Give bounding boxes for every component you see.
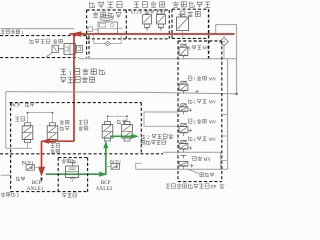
green arrow right [99, 172, 107, 177]
valve 轴2保持MV [181, 124, 186, 127]
secondary regulator valve [179, 14, 185, 16]
red main line BP (horizontal) [70, 33, 235, 35]
svg-text:MV: MV [203, 158, 211, 163]
left supply drop [5, 92, 7, 149]
green line from AXLE1 junction to AXLE2 [46, 173, 106, 175]
valve 轴2排气MV [181, 140, 186, 143]
U pipe to EP box [144, 112, 178, 126]
label 轴1排气 MV [188, 76, 192, 80]
dashed box top-left 远控预解保持 [0, 35, 89, 37]
svg-text:AXLE1: AXLE1 [27, 186, 44, 192]
gauge BCP1 [26, 165, 34, 170]
dashed box 连接阀 [58, 157, 87, 159]
label 负荷单元 [133, 1, 164, 7]
red arrow left at corner [41, 139, 49, 144]
green exhaust line with arrow [110, 135, 132, 137]
label 轴2制动缸压 note line1 [141, 134, 145, 138]
green riser to exhaust valve [105, 142, 107, 174]
svg-text:BCP1: BCP1 [21, 161, 33, 166]
right stub of regulator [118, 27, 123, 29]
pipe from BCP2 area to EP [136, 163, 142, 169]
label 进气/保持 right of valve2 [60, 120, 69, 124]
check valve diamond small [105, 41, 111, 46]
label 进气 valve1 [15, 117, 25, 122]
gauge BCP2 [111, 164, 119, 170]
label 连接MV [193, 156, 202, 160]
right gray pipe loop top [216, 25, 237, 94]
pointer to 控制阀 [189, 170, 200, 174]
dashed box 主调节器 [86, 10, 88, 58]
svg-text:BCP: BCP [11, 103, 21, 108]
wire linking BCP valve tops [28, 112, 53, 114]
EP vertical pipe right [227, 59, 229, 170]
green arrow up [103, 141, 108, 148]
check valve diamond right [220, 38, 229, 46]
stub pipes EP [222, 114, 228, 116]
label 远控预解 保持 [30, 39, 50, 43]
label 轴1制动缸压 note line1 [60, 69, 66, 75]
red return line to BCP1 [42, 140, 75, 142]
label 力进气示意 note line2 [60, 77, 94, 83]
center valve 4 [124, 122, 130, 125]
red vertical brake pipe [73, 34, 75, 141]
label 控制阀 [200, 173, 214, 177]
pilot valve 远控预解 [52, 45, 58, 52]
BCP valve 2 [50, 123, 56, 126]
svg-text:R/: R/ [187, 45, 192, 50]
left stub of regulator [88, 27, 93, 32]
label 连接阀 inner [62, 159, 76, 163]
dashed EP box [178, 40, 222, 42]
label 主调节器 top [90, 2, 123, 8]
svg-text:2: 2 [17, 192, 19, 197]
regulator bypass loop with check valve [94, 33, 121, 43]
top-left remote pipe (远程接口1) [1, 28, 75, 30]
svg-text:V1.CP: V1.CP [130, 10, 142, 15]
label 排气/保持 center-left [79, 120, 88, 124]
label 主调节器 inner [93, 12, 122, 18]
svg-text:MV: MV [209, 76, 217, 81]
svg-text:1: 1 [193, 99, 195, 104]
valve 轴1保持MV [181, 104, 186, 107]
red drop to BCP AXLE1 [41, 141, 43, 168]
valve R/保留MV [181, 44, 186, 47]
dashed box BCP调节 / center [10, 102, 142, 104]
svg-text:EP: EP [211, 185, 217, 190]
wire linking center valve tops [108, 115, 128, 117]
main regulator 主调节器 body [100, 15, 113, 20]
link valve 连接阀 [72, 163, 74, 166]
pipe y152 segment [163, 151, 221, 153]
valve 连接MV [183, 155, 185, 158]
label 进气/保持 below red line [51, 143, 60, 147]
long gray pipe BC1 (y59) [79, 58, 237, 60]
svg-text:1: 1 [69, 71, 72, 77]
label 力排气示意 note line2 [141, 140, 166, 145]
svg-text:MV: MV [203, 45, 211, 50]
label 由电子单元控制的EP阀 [166, 184, 210, 189]
BCP intake valve 1 [25, 123, 31, 126]
label 轴2保持 MV [188, 119, 192, 123]
svg-text:2: 2 [193, 119, 195, 124]
label 次级阀节器 top [173, 1, 211, 7]
label 排气 left-bottom [16, 177, 25, 181]
long gray pipe supply (y92-94) [6, 92, 237, 94]
valve 轴1排气MV [181, 81, 186, 84]
load valve V2 [160, 10, 162, 14]
left exhaust stub [1, 174, 12, 176]
svg-text:MV: MV [209, 119, 217, 124]
label 连接阀 below box [62, 193, 76, 197]
label 轴1保持 MV [189, 99, 193, 103]
label 排气 valve4 [117, 120, 126, 124]
svg-text:MV: MV [209, 99, 217, 104]
svg-text:AXLE2: AXLE2 [96, 186, 113, 192]
svg-text:2: 2 [193, 137, 195, 142]
svg-text:1: 1 [193, 76, 195, 81]
red arrow on main line pointing left [70, 31, 82, 36]
svg-text:MV: MV [209, 137, 217, 142]
load valve V1 [146, 10, 148, 14]
label 排气 [156, 10, 165, 14]
label 调节器 inner [180, 11, 200, 17]
label 远程接口 2 [1, 192, 15, 196]
center valve 3 [105, 122, 111, 125]
red arrowhead down [38, 167, 45, 177]
label 远程接口 1 [1, 30, 20, 34]
label 轴2排气 MV [189, 136, 193, 140]
dashed box 负荷单元 [125, 10, 127, 39]
dashed box 次级阀调节器 [172, 8, 209, 10]
